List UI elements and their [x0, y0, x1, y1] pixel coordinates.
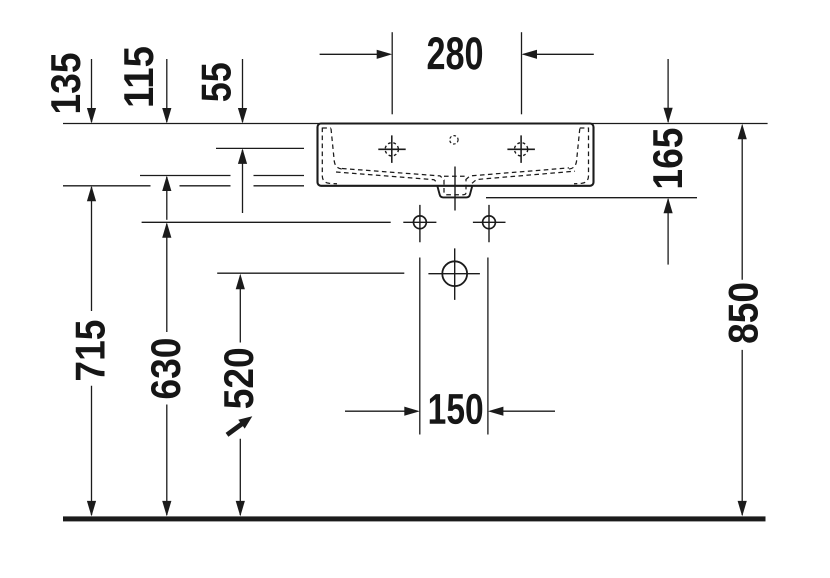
siphon outlet circle — [442, 261, 467, 286]
arrowhead 55 down — [238, 108, 247, 124]
arrowhead 520 up — [236, 274, 245, 290]
arrowhead 115 up — [162, 176, 171, 192]
dim 280 line left — [320, 53, 390, 55]
svg-text:135: 135 — [42, 53, 89, 115]
dim 150 extension line left — [419, 258, 421, 435]
arrowhead 850 up — [738, 124, 747, 140]
dim 715 line — [91, 187, 93, 515]
dim 520 oblique arrow symbol — [226, 416, 253, 436]
bowl lower slope dashed right — [472, 171, 575, 183]
dim 55 bottom arrow shaft — [242, 150, 244, 213]
svg-text:115: 115 — [115, 46, 162, 108]
dim 135 top line — [91, 59, 93, 122]
arrowhead 280 left — [522, 50, 538, 59]
arrowhead 165 up — [664, 198, 673, 214]
svg-text:850: 850 — [720, 282, 767, 344]
inner wall right outer dashed — [574, 128, 589, 184]
fixing hole right cross — [473, 205, 506, 242]
svg-text:280: 280 — [426, 27, 483, 79]
dim 280 line right — [524, 53, 594, 55]
dim 165 top line — [667, 59, 669, 122]
arrowhead 630 up — [162, 222, 171, 238]
arrowhead 520 down — [236, 501, 245, 517]
520 level line — [217, 272, 404, 274]
dim 150 extension line right — [487, 258, 489, 435]
inner wall right inner dashed — [569, 129, 580, 170]
dim 115 top line — [166, 59, 168, 122]
115 level line — [140, 175, 304, 177]
svg-text:630: 630 — [142, 338, 189, 400]
basin centre line — [454, 167, 456, 211]
dim 850 line — [741, 126, 743, 516]
dim 520 line — [239, 276, 241, 516]
drain box — [437, 186, 472, 198]
dim 280 extension line right — [521, 32, 523, 114]
arrowhead 280 right — [377, 50, 393, 59]
inner wall left outer dashed — [322, 128, 337, 184]
arrowhead 165 down — [664, 108, 673, 124]
dim 165 bottom arrow shaft — [667, 199, 669, 264]
dim 115 bottom arrow shaft — [166, 177, 168, 220]
svg-text:165: 165 — [644, 128, 691, 190]
135 / 715 level line — [63, 185, 304, 187]
inner wall right top dashed — [580, 127, 589, 129]
arrowhead 115 down — [162, 108, 171, 124]
arrowhead 850 down — [738, 501, 747, 517]
siphon outlet cross — [428, 248, 480, 300]
drain pipe inner dashed — [444, 180, 466, 195]
arrowhead 715 down — [87, 501, 96, 517]
tap hole left dashed circle — [385, 143, 398, 156]
arrowhead 715 up — [87, 186, 96, 202]
arrowhead 150 left — [488, 407, 504, 416]
dim 630 line — [166, 224, 168, 515]
dim 150 line right — [490, 410, 555, 412]
inner wall left top dashed — [322, 127, 331, 129]
arrowhead 150 right — [404, 407, 420, 416]
tap hole right dashed circle — [515, 143, 528, 156]
arrowhead 630 down — [162, 501, 171, 517]
svg-text:715: 715 — [66, 320, 113, 382]
dim 55 top line — [242, 59, 244, 122]
dim 280 extension line left — [391, 32, 393, 114]
svg-text:150: 150 — [428, 386, 484, 434]
basin inner bowl dashed contour — [322, 128, 588, 195]
tap hole left cross — [378, 135, 405, 163]
tap hole right cross — [507, 135, 535, 163]
bowl upper slope dashed left — [342, 169, 445, 180]
bowl upper slope dashed right — [466, 168, 570, 180]
arrowhead 135 down — [87, 108, 96, 124]
washbasin outline — [318, 124, 594, 186]
svg-text:520: 520 — [215, 347, 262, 409]
fixing hole left cross — [403, 205, 436, 242]
floor line — [63, 516, 766, 521]
fixing hole right circle — [483, 216, 496, 229]
dim 150 line left — [345, 410, 418, 412]
fixing-hole level line — [142, 221, 391, 223]
overflow hole dashed circle — [450, 136, 458, 144]
fixing hole left circle — [414, 216, 427, 229]
rim reference line — [63, 123, 768, 125]
svg-text:55: 55 — [193, 62, 240, 102]
arrowhead 55 up — [238, 148, 247, 164]
drain level line — [486, 197, 697, 199]
inner wall left inner dashed — [331, 129, 342, 170]
55 level line — [216, 147, 304, 149]
bowl lower slope dashed left — [336, 172, 438, 183]
far rim dashed across drain — [444, 175, 466, 177]
